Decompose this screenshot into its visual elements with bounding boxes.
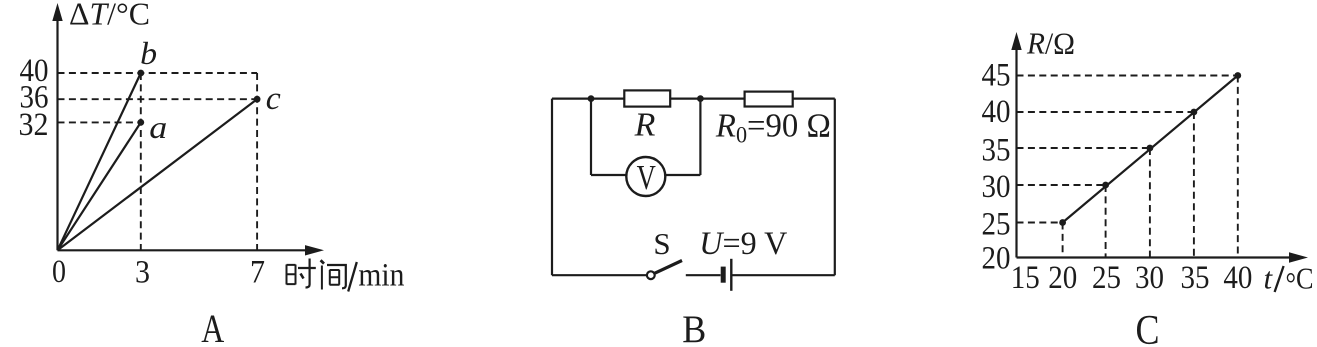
svg-text:40: 40 (982, 94, 1011, 130)
dashed line y=35 (1017, 147, 1150, 149)
dashed line x=7 (256, 73, 258, 250)
svg-text:C: C (1136, 308, 1160, 347)
point a (137, 119, 144, 126)
x-axis arrowhead (1289, 252, 1308, 262)
wire: bottom right segment (battery to right wire) (732, 274, 835, 276)
switch S lever (655, 261, 682, 274)
label 间 (Chinese "jian") drawn as strokes (321, 260, 346, 289)
battery positive plate (long thin bar) (730, 259, 732, 291)
svg-text:c: c (266, 81, 281, 117)
dashed line y=30 (1017, 184, 1106, 186)
switch S pivot (open circle) (647, 271, 655, 279)
svg-text:b: b (140, 35, 157, 71)
wire: right side of loop (834, 99, 836, 276)
point (30,35) (1147, 145, 1154, 152)
svg-text:30: 30 (982, 169, 1011, 205)
line O to c (58, 99, 258, 250)
svg-text:R: R (634, 107, 656, 144)
y-axis (ΔT axis) (56, 18, 58, 250)
svg-text:40: 40 (1223, 260, 1252, 296)
svg-text:°C: °C (1286, 260, 1314, 300)
dashed line y=40 (1017, 111, 1194, 113)
label 时 (Chinese "shi") drawn as strokes (287, 259, 316, 288)
line R vs t (1063, 76, 1238, 223)
svg-text:35: 35 (982, 133, 1011, 169)
svg-text:3: 3 (135, 255, 150, 291)
y-axis arrowhead (1011, 32, 1021, 50)
svg-text:A: A (201, 306, 224, 347)
voltmeter V (circle) (626, 157, 665, 196)
svg-text:15: 15 (1011, 260, 1040, 296)
node (junction dot right of R) (697, 95, 704, 102)
svg-text:30: 30 (1135, 260, 1164, 296)
wire: voltmeter branch right horizontal (665, 174, 700, 176)
label /min slash (348, 262, 357, 292)
svg-text:ΔT/°C: ΔT/°C (69, 0, 150, 31)
dashed line x=25 (1105, 185, 1107, 258)
dashed line y=25 (1017, 222, 1063, 224)
svg-text:32: 32 (19, 107, 49, 143)
point c (254, 96, 261, 103)
svg-text:20: 20 (982, 241, 1011, 277)
dashed line x=3 (140, 73, 142, 250)
svg-text:V: V (637, 157, 657, 196)
wire: bottom middle segment (switch to battery) (686, 274, 721, 276)
y-axis arrowhead (52, 3, 62, 21)
x-axis arrowhead (305, 245, 324, 255)
battery negative plate (short thick bar) (721, 267, 726, 283)
y-axis (R axis) (1015, 47, 1017, 258)
wire: voltmeter branch left vertical (590, 99, 592, 175)
x-axis (time axis) (58, 249, 309, 251)
point (20,25) (1059, 219, 1066, 226)
point (40,45) (1234, 72, 1241, 79)
svg-text:R0=90 Ω: R0=90 Ω (715, 108, 831, 148)
wire: voltmeter branch right vertical (699, 99, 701, 175)
node (junction dot left of R) (588, 95, 595, 102)
x-axis (t axis) (1017, 256, 1293, 258)
dashed line x=20 (1062, 223, 1064, 258)
point b (137, 70, 144, 77)
label slash of t/°C (1275, 266, 1284, 292)
svg-text:t: t (1264, 260, 1274, 295)
dashed line y=32 (58, 121, 141, 123)
svg-text:35: 35 (1181, 260, 1210, 296)
point (25,30) (1102, 182, 1109, 189)
dashed line x=35 (1193, 112, 1195, 258)
dashed line x=40 (1237, 76, 1239, 258)
svg-text:B: B (682, 308, 706, 347)
resistor R (box) (624, 90, 670, 106)
svg-text:45: 45 (982, 58, 1011, 94)
svg-text:7: 7 (250, 255, 265, 291)
svg-text:R/Ω: R/Ω (1026, 26, 1075, 61)
wire: voltmeter branch left horizontal (591, 174, 627, 176)
svg-text:U=9 V: U=9 V (699, 226, 787, 262)
wire: bottom left segment (to switch) (552, 274, 647, 276)
svg-text:0: 0 (52, 254, 66, 290)
dashed line y=36 (58, 98, 258, 100)
dashed line y=45 (1017, 75, 1238, 77)
point (35,40) (1191, 109, 1198, 116)
svg-text:25: 25 (1092, 260, 1121, 296)
line O to b (58, 73, 141, 250)
svg-text:25: 25 (982, 207, 1011, 243)
svg-text:20: 20 (1048, 260, 1077, 296)
dashed line x=30 (1149, 148, 1151, 258)
svg-text:S: S (653, 226, 670, 261)
wire: top of loop (552, 97, 835, 99)
line O to a (58, 122, 141, 250)
svg-text:a: a (149, 109, 167, 145)
dashed line y=40 (58, 72, 258, 74)
resistor R0 (box) (745, 92, 793, 107)
svg-text:min: min (358, 258, 404, 294)
wire: left side of loop (551, 99, 553, 276)
